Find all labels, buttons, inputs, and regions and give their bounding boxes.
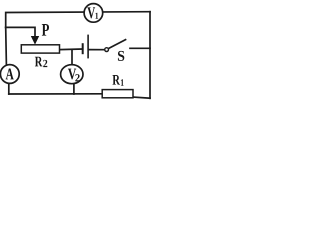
label P <box>42 24 49 36</box>
label R1 (R) <box>112 75 120 85</box>
switch S pivot <box>105 48 109 52</box>
wire battery to switch <box>89 49 105 51</box>
wire left vertical to ammeter <box>5 27 8 65</box>
wire wiper branch <box>6 27 35 37</box>
switch S blade <box>109 39 127 48</box>
battery long plate <box>87 35 89 59</box>
label R2 subscript 2 <box>43 60 47 67</box>
wire ammeter to bottom <box>8 84 10 94</box>
label R1 <box>112 75 123 86</box>
ammeter A <box>0 65 19 84</box>
wire V2 upper stem <box>71 50 73 65</box>
label V1 (V) <box>87 7 95 18</box>
label A <box>6 69 14 80</box>
wiper arrow P <box>31 36 39 45</box>
wire top <box>6 12 150 28</box>
label R2 <box>35 57 47 67</box>
voltmeter V1 <box>84 4 103 23</box>
wire switch to right frame <box>130 47 150 49</box>
label R2 (R) <box>35 57 43 67</box>
voltmeter V2 <box>61 65 83 84</box>
label V2 subscript 2 <box>75 74 79 81</box>
label S <box>118 51 124 61</box>
rheostat R2 body <box>21 45 59 53</box>
label R1 subscript 1 <box>121 79 124 86</box>
wire R1 to bottom right corner <box>133 97 150 98</box>
wire R2 to battery <box>60 48 82 51</box>
wire right side <box>149 12 151 99</box>
wire V2 lower stem <box>73 84 75 94</box>
label V1 subscript 1 <box>95 13 98 19</box>
label V2 (V) <box>68 69 76 80</box>
battery short plate <box>82 43 84 54</box>
resistor R1 body <box>102 90 133 98</box>
wire bottom <box>9 93 102 95</box>
